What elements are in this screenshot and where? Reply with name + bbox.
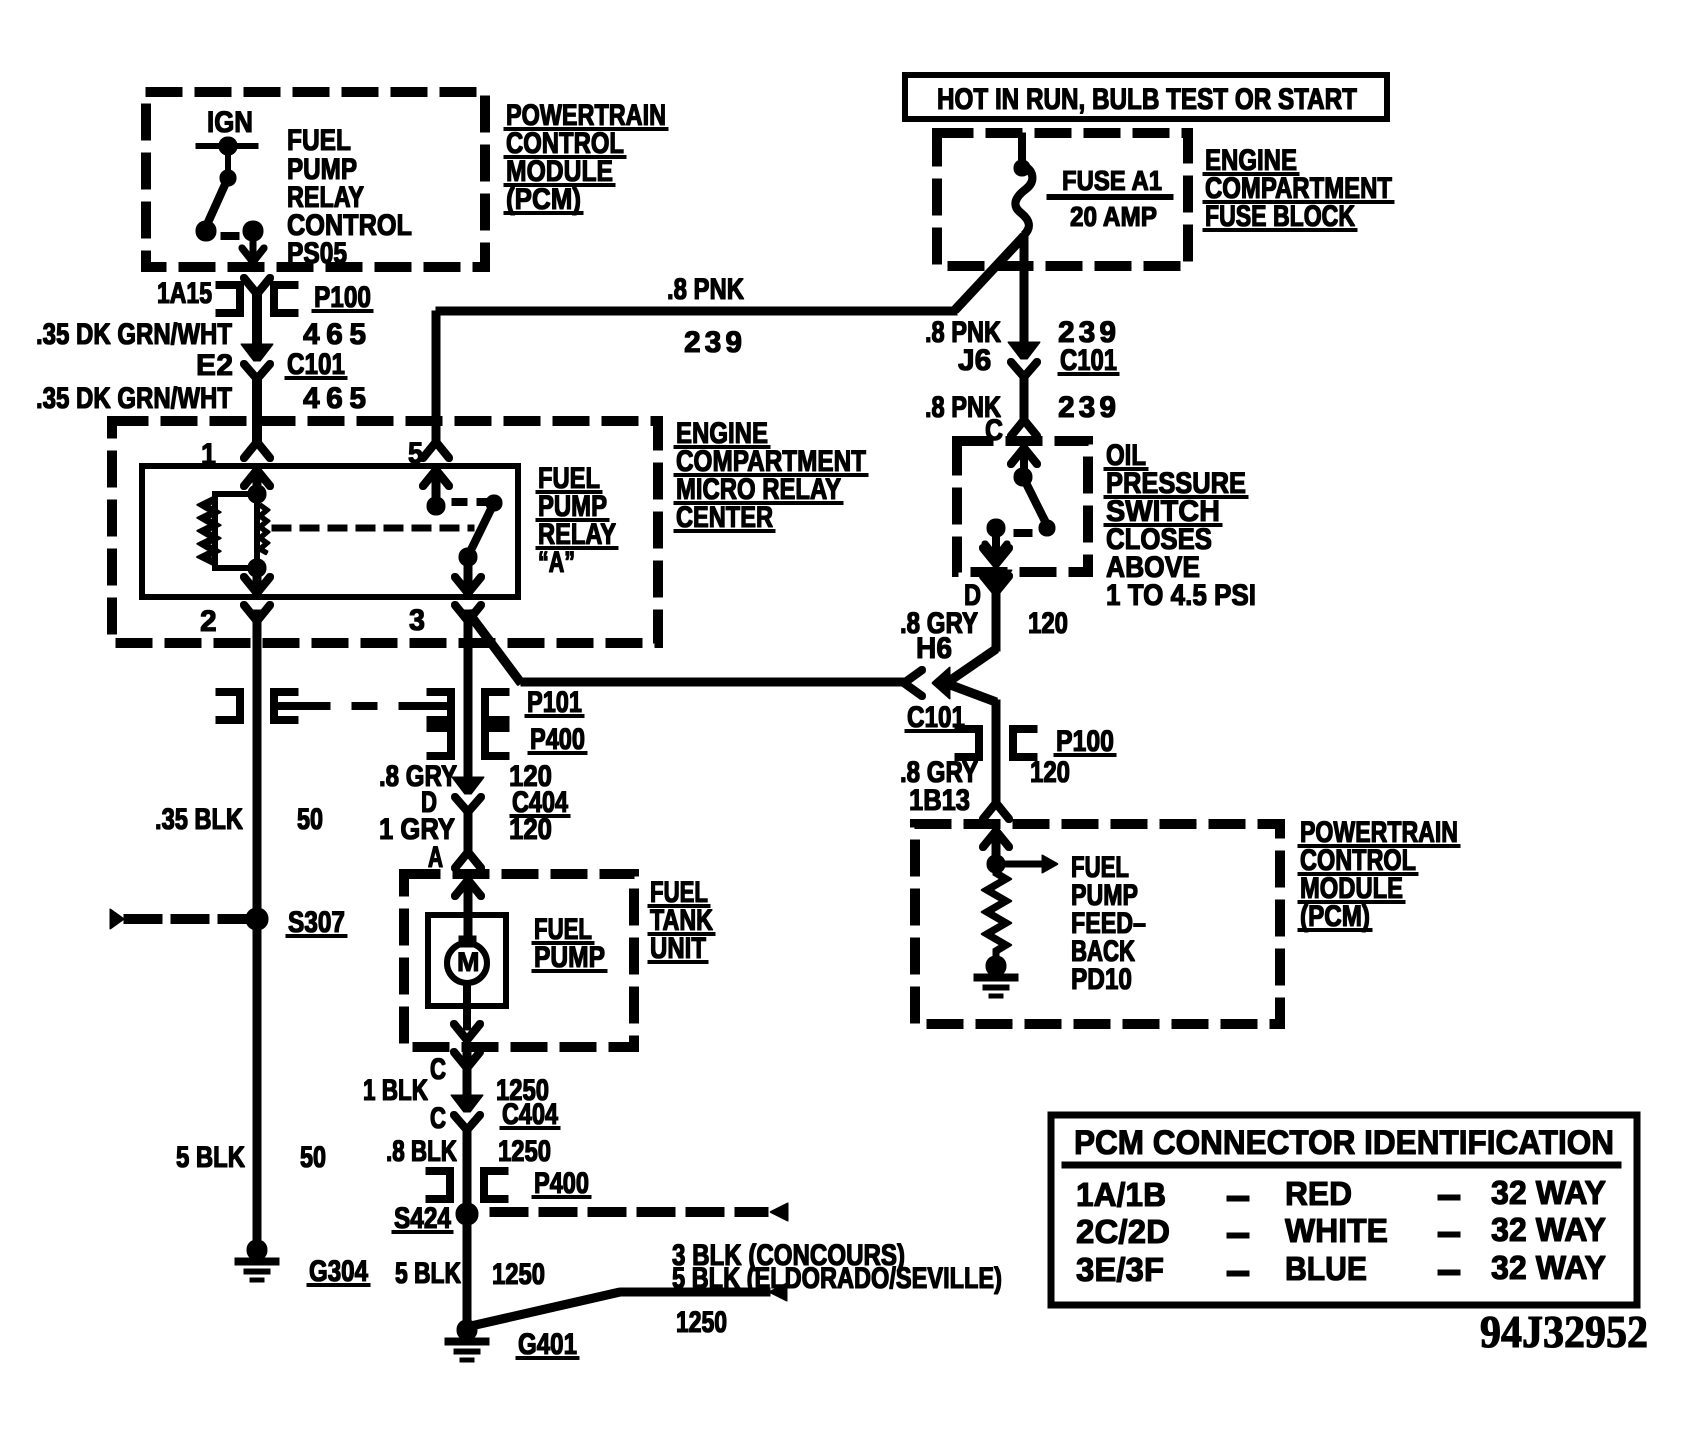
svg-text:120: 120 <box>509 813 552 846</box>
svg-text:50: 50 <box>300 1141 326 1174</box>
svg-text:P101: P101 <box>527 686 582 719</box>
svg-text:.8 BLK: .8 BLK <box>386 1135 457 1168</box>
svg-text:1B13: 1B13 <box>909 784 970 817</box>
svg-text:CENTER: CENTER <box>676 501 773 534</box>
svg-text:“A”: “A” <box>538 546 575 579</box>
svg-text:3: 3 <box>409 604 425 637</box>
svg-text:C: C <box>430 1102 446 1135</box>
svg-text:P400: P400 <box>530 723 585 756</box>
svg-text:M: M <box>457 947 480 977</box>
svg-text:465: 465 <box>303 382 366 415</box>
svg-text:1A/1B: 1A/1B <box>1076 1176 1166 1213</box>
svg-text:J6: J6 <box>958 344 991 377</box>
svg-text:.8 GRY: .8 GRY <box>379 760 457 793</box>
svg-text:S424: S424 <box>394 1202 451 1235</box>
svg-text:50: 50 <box>297 803 323 836</box>
svg-text:1 TO 4.5 PSI: 1 TO 4.5 PSI <box>1106 579 1256 612</box>
svg-text:C: C <box>430 1053 446 1086</box>
svg-text:1250: 1250 <box>676 1306 727 1339</box>
svg-text:1250: 1250 <box>498 1135 551 1168</box>
svg-text:20 AMP: 20 AMP <box>1070 201 1157 232</box>
svg-text:P100: P100 <box>1056 725 1114 758</box>
svg-text:PS05: PS05 <box>287 237 347 270</box>
svg-text:C101: C101 <box>287 348 345 381</box>
svg-text:.35 BLK: .35 BLK <box>155 803 243 836</box>
svg-text:(PCM): (PCM) <box>1300 900 1370 933</box>
svg-text:32 WAY: 32 WAY <box>1491 1211 1606 1248</box>
svg-text:120: 120 <box>1030 756 1070 789</box>
svg-text:5 BLK: 5 BLK <box>176 1141 245 1174</box>
svg-text:.35 DK GRN/WHT: .35 DK GRN/WHT <box>36 318 232 351</box>
svg-text:32 WAY: 32 WAY <box>1491 1249 1606 1286</box>
svg-text:5: 5 <box>408 437 423 470</box>
svg-text:BLUE: BLUE <box>1285 1250 1367 1287</box>
svg-text:UNIT: UNIT <box>650 932 706 965</box>
svg-text:P400: P400 <box>534 1167 589 1200</box>
svg-text:465: 465 <box>303 318 366 351</box>
svg-text:IGN: IGN <box>207 106 253 139</box>
svg-text:5 BLK (ELDORADO/SEVILLE): 5 BLK (ELDORADO/SEVILLE) <box>672 1262 1002 1295</box>
svg-text:WHITE: WHITE <box>1285 1212 1388 1249</box>
svg-text:H6: H6 <box>916 632 952 665</box>
svg-text:2: 2 <box>200 605 217 638</box>
svg-text:HOT IN RUN, BULB TEST OR STAR: HOT IN RUN, BULB TEST OR START <box>937 83 1357 116</box>
svg-text:1 BLK: 1 BLK <box>363 1074 428 1107</box>
svg-text:PD10: PD10 <box>1071 963 1132 996</box>
svg-text:239: 239 <box>684 326 742 359</box>
svg-text:1: 1 <box>201 438 216 471</box>
svg-text:1250: 1250 <box>492 1258 545 1291</box>
svg-text:C101: C101 <box>1060 344 1117 377</box>
svg-text:(PCM): (PCM) <box>506 183 581 216</box>
svg-text:P100: P100 <box>314 281 371 314</box>
svg-text:120: 120 <box>1028 607 1068 640</box>
svg-text:1A15: 1A15 <box>157 277 212 310</box>
svg-text:FUSE BLOCK: FUSE BLOCK <box>1205 200 1355 233</box>
svg-text:94J32952: 94J32952 <box>1480 1306 1648 1357</box>
svg-text:G304: G304 <box>309 1255 368 1288</box>
svg-text:3E/3F: 3E/3F <box>1076 1251 1164 1288</box>
svg-text:.8 PNK: .8 PNK <box>667 273 744 306</box>
svg-text:PUMP: PUMP <box>534 941 605 974</box>
svg-text:1 GRY: 1 GRY <box>379 813 455 846</box>
svg-text:.35 DK GRN/WHT: .35 DK GRN/WHT <box>36 382 232 415</box>
svg-text:FUSE A1: FUSE A1 <box>1062 165 1162 196</box>
svg-text:PCM CONNECTOR IDENTIFICATION: PCM CONNECTOR IDENTIFICATION <box>1074 1124 1614 1162</box>
svg-text:5 BLK: 5 BLK <box>395 1257 461 1290</box>
svg-text:32 WAY: 32 WAY <box>1491 1174 1606 1211</box>
svg-text:C404: C404 <box>502 1098 558 1131</box>
svg-text:A: A <box>428 841 443 874</box>
svg-text:S307: S307 <box>288 906 345 939</box>
svg-text:E2: E2 <box>196 349 233 382</box>
svg-text:RED: RED <box>1285 1175 1352 1212</box>
svg-text:2C/2D: 2C/2D <box>1076 1213 1170 1250</box>
svg-text:239: 239 <box>1058 391 1116 424</box>
svg-text:G401: G401 <box>518 1328 577 1361</box>
